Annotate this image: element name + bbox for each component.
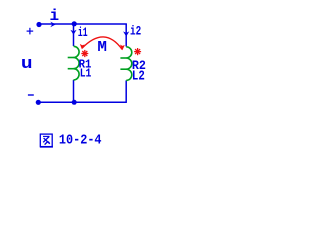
svg-text:u: u bbox=[21, 56, 33, 74]
svg-text:L2: L2 bbox=[132, 68, 145, 84]
svg-text:M: M bbox=[97, 38, 107, 55]
svg-text:i2: i2 bbox=[130, 25, 141, 39]
svg-text:L1: L1 bbox=[80, 68, 92, 81]
svg-text:i: i bbox=[49, 7, 59, 25]
svg-text:i1: i1 bbox=[78, 26, 88, 40]
svg-text:10-2-4: 10-2-4 bbox=[59, 132, 102, 148]
